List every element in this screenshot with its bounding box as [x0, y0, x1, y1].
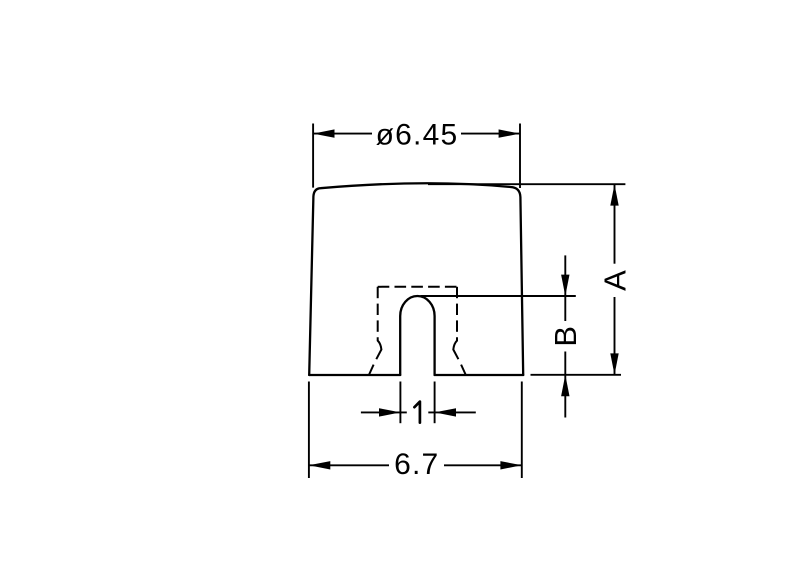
svg-text:6.7: 6.7 — [394, 448, 439, 481]
dimension B : leader line from arch apex — [421, 295, 576, 297]
dimension ø6.45 : arrowheads — [313, 129, 520, 137]
dimension A : arrowheads — [610, 184, 618, 375]
svg-text:ø6.45: ø6.45 — [376, 118, 459, 151]
dimension 1 : extension lines — [400, 382, 434, 424]
dimension B : arrowheads — [561, 275, 569, 397]
dimension 1 : dimension lines — [361, 411, 476, 413]
hidden hole top edge (dashed) — [378, 286, 457, 288]
dimension 1 : value label — [414, 402, 420, 423]
svg-text:A: A — [597, 270, 632, 291]
dimension 1 : arrowheads — [379, 408, 456, 416]
hidden hole left profile (dashed with flare) — [369, 287, 382, 375]
slot (inverted U opening) — [400, 296, 434, 375]
cap body outline — [309, 183, 523, 375]
dimension B : dimension lines — [564, 255, 566, 417]
dimension ø6.45 : dimension line — [313, 133, 520, 135]
svg-text:B: B — [548, 326, 583, 347]
dimension ø6.45 : extension lines — [313, 124, 520, 189]
dimension A : top extension line — [428, 183, 625, 185]
dimension 6.7 : arrowheads — [309, 461, 522, 469]
dimension 6.7 : extension lines — [309, 382, 522, 479]
dimension 6.7 : dimension line — [309, 464, 522, 466]
hidden hole right profile (dashed with flare) — [453, 287, 466, 375]
dimension A : dimension line — [614, 184, 616, 375]
dimension B : bottom extension line — [531, 374, 622, 376]
